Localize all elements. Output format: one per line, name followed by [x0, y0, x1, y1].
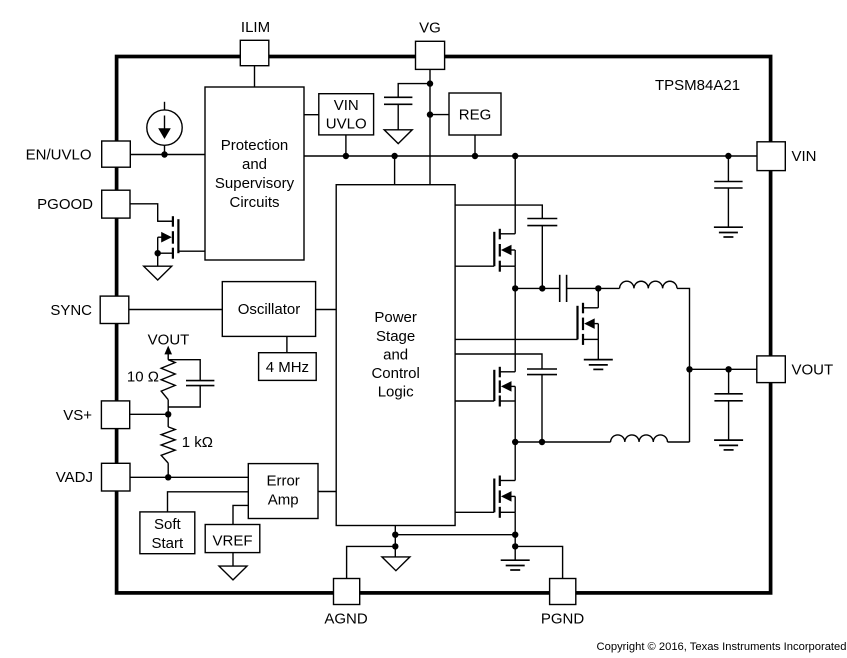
svg-text:VS+: VS+	[63, 407, 92, 424]
svg-text:Circuits: Circuits	[229, 194, 279, 211]
svg-text:Amp: Amp	[268, 492, 299, 509]
svg-text:Protection: Protection	[221, 137, 289, 154]
svg-text:Logic: Logic	[378, 384, 414, 401]
svg-text:Copyright © 2016, Texas Instru: Copyright © 2016, Texas Instruments Inco…	[597, 641, 847, 653]
svg-text:and: and	[383, 347, 408, 364]
svg-text:4 MHz: 4 MHz	[266, 359, 309, 376]
svg-text:Stage: Stage	[376, 328, 415, 345]
svg-text:SYNC: SYNC	[50, 302, 92, 319]
svg-text:VOUT: VOUT	[148, 331, 190, 348]
svg-text:EN/UVLO: EN/UVLO	[26, 147, 92, 164]
svg-text:Oscillator: Oscillator	[238, 301, 301, 318]
svg-text:AGND: AGND	[324, 611, 368, 628]
svg-text:Start: Start	[152, 535, 185, 552]
svg-text:Soft: Soft	[154, 516, 182, 533]
svg-text:Control: Control	[371, 365, 419, 382]
svg-text:1 kΩ: 1 kΩ	[182, 434, 213, 451]
svg-text:TPSM84A21: TPSM84A21	[655, 77, 740, 94]
svg-text:Error: Error	[266, 473, 299, 490]
svg-text:and: and	[242, 156, 267, 173]
svg-text:Power: Power	[374, 309, 417, 326]
svg-text:10 Ω: 10 Ω	[127, 369, 159, 386]
svg-text:Supervisory: Supervisory	[215, 175, 295, 192]
svg-text:UVLO: UVLO	[326, 116, 367, 133]
svg-text:VG: VG	[419, 20, 441, 37]
svg-text:PGOOD: PGOOD	[37, 196, 93, 213]
svg-text:ILIM: ILIM	[241, 19, 270, 36]
svg-text:PGND: PGND	[541, 611, 585, 628]
svg-text:VOUT: VOUT	[792, 362, 834, 379]
svg-text:VIN: VIN	[792, 148, 817, 165]
svg-text:REG: REG	[459, 107, 492, 124]
svg-text:VREF: VREF	[212, 533, 252, 550]
svg-text:VIN: VIN	[334, 97, 359, 114]
svg-text:VADJ: VADJ	[56, 469, 93, 486]
